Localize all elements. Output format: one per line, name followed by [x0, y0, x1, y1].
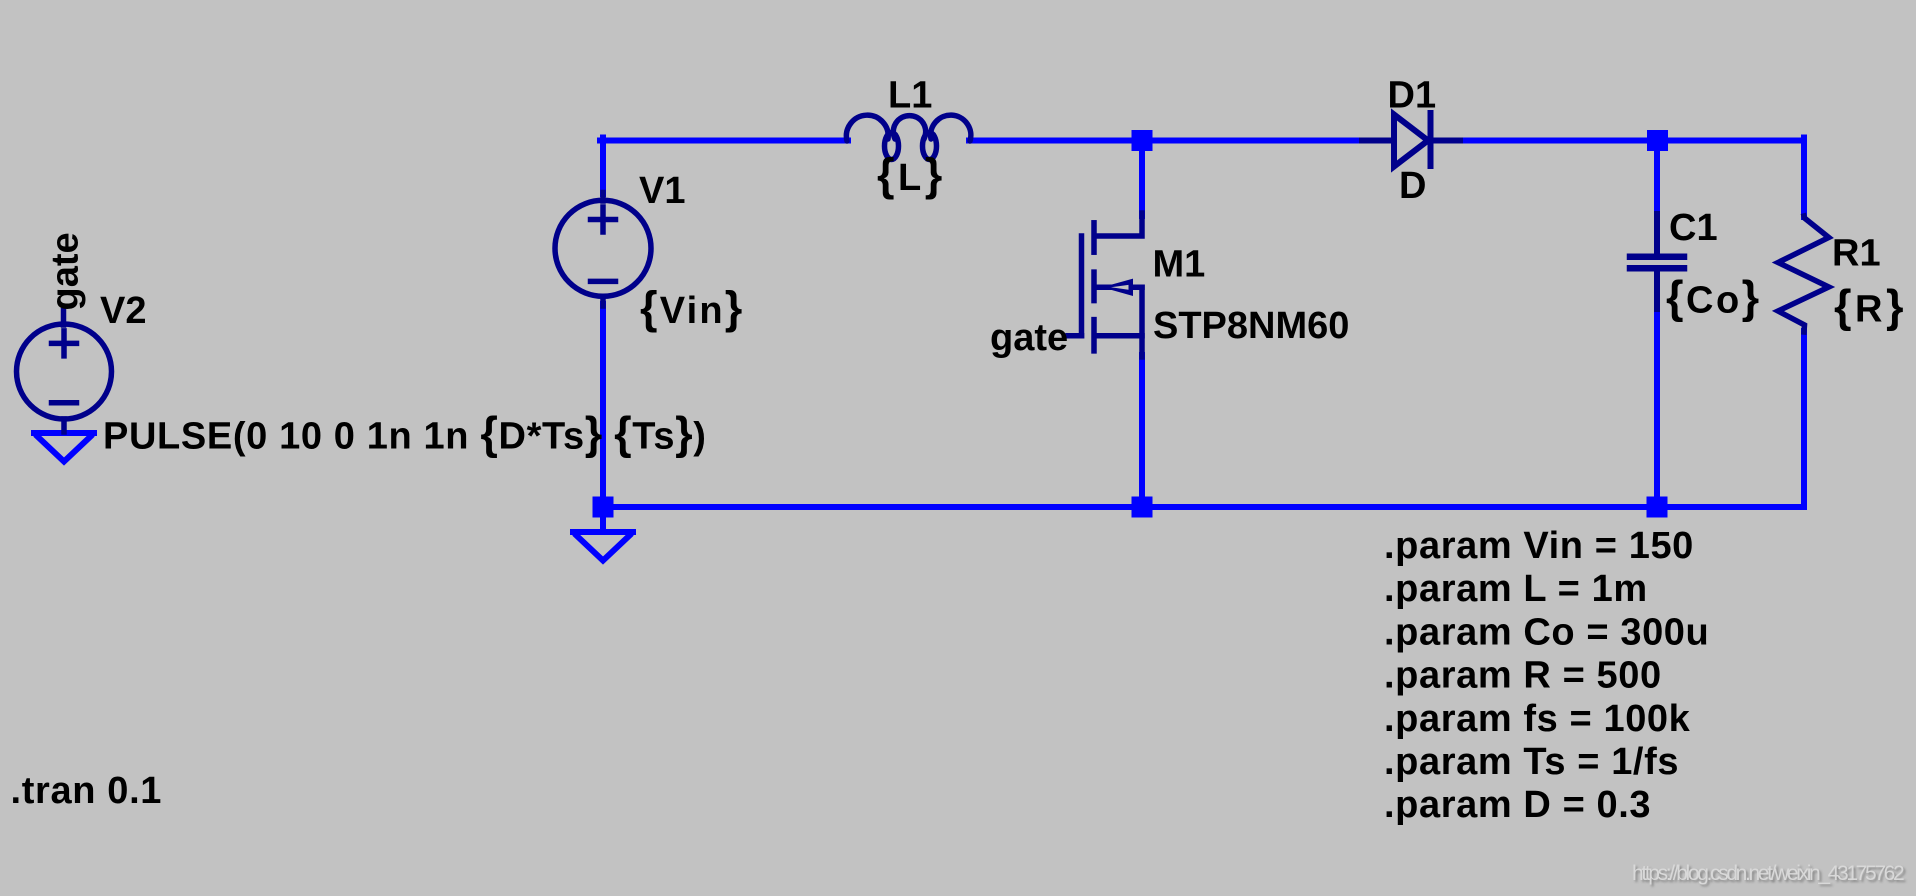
wire L1 to M1 drain node: [969, 138, 1363, 144]
value {Vin}: [640, 282, 744, 333]
wire M1 drain vertical: [1139, 143, 1145, 216]
svg-text:C1: C1: [1669, 207, 1718, 249]
svg-text:D1: D1: [1388, 75, 1437, 117]
wire bottom rail: [603, 504, 1804, 510]
svg-text:.param Ts = 1/fs: .param Ts = 1/fs: [1384, 741, 1679, 783]
label L1: [888, 75, 932, 117]
svg-text:V1: V1: [639, 170, 685, 212]
node junction at M1 source bottom: [1132, 497, 1153, 518]
net label gate (V2, rotated): [45, 232, 87, 310]
wire V1 bottom to ground node: [600, 304, 606, 531]
label C1: [1669, 207, 1718, 249]
svg-text:R1: R1: [1832, 232, 1881, 274]
svg-text:.param D = 0.3: .param D = 0.3: [1384, 784, 1651, 826]
svg-text:V2: V2: [100, 290, 146, 332]
watermark: [1632, 862, 1902, 886]
diode D1: [1362, 113, 1460, 167]
svg-text:.param Vin = 150: .param Vin = 150: [1384, 525, 1694, 567]
svg-text:.param L = 1m: .param L = 1m: [1384, 568, 1648, 610]
svg-text:{R}: {R}: [1834, 281, 1907, 332]
svg-text:gate: gate: [45, 232, 87, 310]
wire right branch down to R1: [1801, 138, 1807, 218]
resistor R1: [1778, 216, 1829, 332]
inductor L1: [846, 115, 970, 159]
transistor M1: [1068, 213, 1142, 357]
wire top from V1 to L1: [600, 138, 848, 144]
ground symbol below V2: [34, 433, 94, 462]
voltage source V1: [555, 193, 651, 307]
label V1: [639, 170, 685, 212]
wire C1 bottom vertical: [1654, 307, 1660, 507]
value {R}: [1834, 281, 1907, 332]
svg-text:PULSE(0 10 0 1n 1n {D*Ts} {Ts}: PULSE(0 10 0 1n 1n {D*Ts} {Ts}): [103, 408, 707, 459]
wire D1 cathode to top-right corner: [1459, 138, 1804, 144]
value STP8NM60: [1153, 305, 1349, 347]
value {Co}: [1666, 272, 1762, 323]
value PULSE of V2: [103, 408, 707, 459]
value D: [1399, 165, 1426, 207]
svg-text:gate: gate: [990, 317, 1068, 359]
capacitor C1: [1630, 214, 1684, 309]
label R1: [1832, 232, 1881, 274]
svg-text:{L}: {L}: [877, 149, 946, 200]
net label gate (M1): [990, 317, 1068, 359]
svg-text:{Co}: {Co}: [1666, 272, 1762, 323]
wire C1 top vertical: [1654, 143, 1660, 217]
node junction at D1/C1 top: [1647, 130, 1668, 151]
svg-text:.param R = 500: .param R = 500: [1384, 655, 1662, 697]
value {L}: [877, 149, 946, 200]
directive .param block: [1384, 525, 1709, 826]
svg-text:.param Co = 300u: .param Co = 300u: [1384, 611, 1709, 653]
svg-text:STP8NM60: STP8NM60: [1153, 305, 1349, 347]
svg-text:M1: M1: [1153, 244, 1206, 286]
node junction at C1 bottom: [1647, 497, 1668, 518]
label D1: [1388, 75, 1437, 117]
svg-text:D: D: [1399, 165, 1426, 207]
svg-text:L1: L1: [888, 75, 932, 117]
wire V1 top lead: [600, 138, 606, 195]
node junction at L1/M1 drain: [1132, 130, 1153, 151]
voltage source V2: [17, 311, 112, 433]
ground symbol below V1: [573, 532, 633, 561]
wire M1 source vertical: [1139, 355, 1145, 507]
label V2: [100, 290, 146, 332]
wire R1 bottom vertical: [1801, 331, 1807, 507]
svg-text:.tran 0.1: .tran 0.1: [11, 770, 163, 812]
label M1: [1153, 244, 1206, 286]
svg-text:.param fs = 100k: .param fs = 100k: [1384, 698, 1691, 740]
directive .tran: [11, 770, 163, 812]
svg-text:{Vin}: {Vin}: [640, 282, 744, 333]
node junction at V1 ground: [593, 497, 614, 518]
